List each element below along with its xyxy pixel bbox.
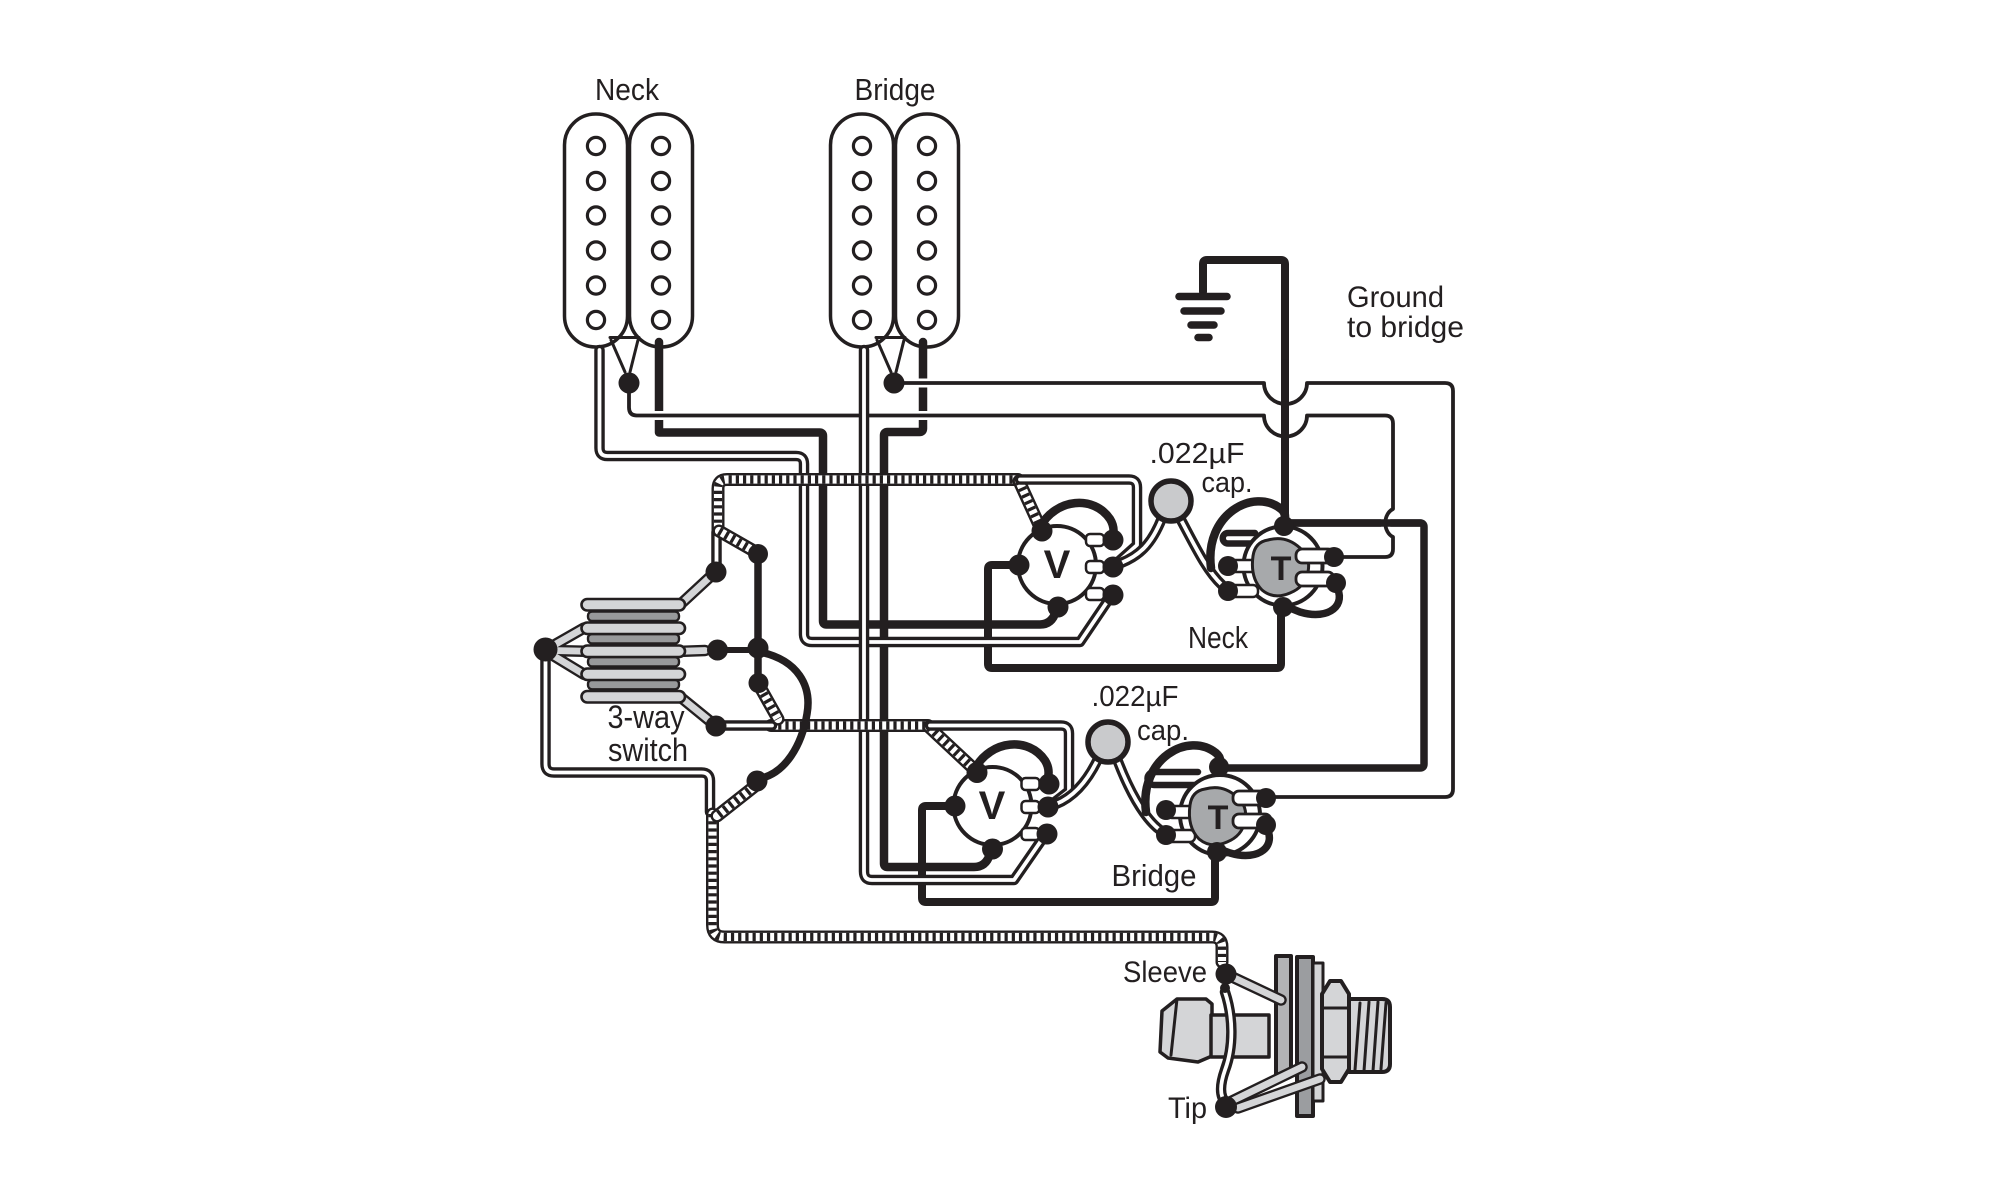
output jack assembly xyxy=(1123,956,1390,1125)
svg-text:Bridge: Bridge xyxy=(855,72,936,107)
pickup neck humbucker left coil xyxy=(565,114,628,347)
junction dot jack tip xyxy=(1215,1096,1237,1118)
wire thick switch middle lug link xyxy=(722,647,756,653)
tone pot T1 body xyxy=(1244,527,1323,606)
volume pot V1 casing arc xyxy=(1040,503,1114,536)
svg-text:Neck: Neck xyxy=(595,72,659,107)
switch lug lead middle to output dot xyxy=(684,645,705,657)
tone pot T2 body xyxy=(1180,775,1260,855)
svg-text:3-way: 3-way xyxy=(608,699,685,735)
junction dot V1 shield top-left xyxy=(1032,521,1053,542)
wire thin neck ground junction to T1 right upper lug xyxy=(629,391,1393,557)
wire neck pickup hot thick black to V1 bottom lug xyxy=(659,342,1058,625)
junction dot shield fork xyxy=(748,544,768,564)
wire white stub switch bottom lug to bus2 xyxy=(722,725,772,727)
svg-text:V: V xyxy=(979,784,1006,828)
capacitor C2 .022uF body xyxy=(1088,722,1128,762)
shield diagonal from switch lower shield dot to bus2 xyxy=(760,687,778,719)
junction dot T2 right lug lower xyxy=(1256,815,1276,835)
svg-text:.022µF: .022µF xyxy=(1150,438,1245,470)
svg-text:switch: switch xyxy=(608,732,688,768)
volume pot V2 lug 3 xyxy=(1022,828,1040,840)
jack hex nut xyxy=(1322,981,1349,1082)
junction dot V2 casing bottom xyxy=(982,839,1003,860)
shield bus 1: switch to neck volume pot xyxy=(718,480,1018,531)
shield diagonal from switch arc bottom dot to bus 3 xyxy=(717,786,755,816)
tone pot T1 right lug upper xyxy=(1296,549,1334,563)
volume pot V1 neck body xyxy=(1018,526,1096,604)
tone pot T1 casing arc xyxy=(1210,501,1285,568)
wire white from switch common left dot down and around xyxy=(546,656,711,812)
svg-text:T: T xyxy=(1271,550,1292,588)
jack washer plate xyxy=(1276,956,1291,1074)
wire bridge pickup hot thick black to V2 bottom lug xyxy=(884,342,992,867)
wire white jack sleeve to tip xyxy=(1221,992,1231,1103)
capacitor C2 .022uF leads xyxy=(1056,759,1098,804)
shield bus 3: switch down to output jack sleeve xyxy=(713,814,1223,962)
svg-text:V: V xyxy=(1044,543,1071,587)
pole pieces bridge left coil xyxy=(853,137,870,328)
junction dot T1 right lug lower xyxy=(1326,573,1346,593)
wire white continuation of bus1 to V1 middle lug xyxy=(1020,480,1137,563)
junction dot V1 lug 2 xyxy=(1103,557,1124,578)
tone pot T2 casing arc xyxy=(1145,745,1220,812)
wire thick link T1 casing to T2 casing xyxy=(1221,523,1424,768)
junction dot V2 shield top-left xyxy=(967,762,988,783)
switch contact bar 4 xyxy=(582,669,686,681)
junction dot V2 lug 2 xyxy=(1038,797,1059,818)
svg-text:Tip: Tip xyxy=(1168,1092,1207,1125)
shield bus 2 fork to V2 top-left lug xyxy=(929,727,975,770)
pole pieces neck right coil xyxy=(652,137,669,328)
wire thick ground-to-bridge from ground symbol to T1 casing xyxy=(1203,260,1285,519)
switch dark spacer bar 4 xyxy=(588,680,679,690)
tone pot T1 left lug lower xyxy=(1230,585,1258,597)
volume pot V1 lug 1 xyxy=(1086,534,1104,546)
volume pot V2 bridge body xyxy=(954,767,1032,845)
jack threaded barrel xyxy=(1349,999,1390,1072)
tone pot T1 left lug upper xyxy=(1230,560,1258,572)
wire thick T1 right lower lug to casing bottom xyxy=(1290,586,1339,614)
jack tip lug arms xyxy=(1232,1067,1302,1101)
junction dot T1 casing bottom xyxy=(1273,597,1293,617)
switch contact bar 3 xyxy=(582,646,686,658)
svg-text:.022µF: .022µF xyxy=(1092,681,1179,713)
junction dot T1 left lug upper xyxy=(1218,556,1238,576)
jack thin plate xyxy=(1313,963,1323,1101)
junction dot V1 lug 3 xyxy=(1103,585,1124,606)
wire neck pickup white to V1 lower-right lug xyxy=(600,350,1110,642)
wire thick ground link V2 casing to T2 casing xyxy=(922,806,1215,902)
junction dot switch top output xyxy=(706,562,727,583)
svg-text:Sleeve: Sleeve xyxy=(1123,956,1207,989)
junction dot switch left common xyxy=(534,638,558,662)
switch contact bar 2 xyxy=(582,623,686,635)
volume pot V1 lug 2 xyxy=(1086,561,1104,573)
tone pot T2 left lug upper xyxy=(1167,806,1195,818)
svg-text:to bridge: to bridge xyxy=(1347,311,1464,344)
junction dot V1 lug 1 xyxy=(1103,530,1124,551)
capacitor C1 .022uF leads xyxy=(1121,518,1162,563)
switch contact bar 1 xyxy=(582,599,686,611)
junction dot T2 right lug upper xyxy=(1256,788,1276,808)
jack tall plate xyxy=(1297,957,1313,1116)
junction dot T1 left lug lower xyxy=(1218,581,1238,601)
junction dot T2 casing bottom xyxy=(1207,842,1227,862)
wire bridge pickup lead V to junction xyxy=(876,338,905,373)
tone pot T2 left lug lower xyxy=(1167,830,1195,842)
wire thick switch vertical to shield junction xyxy=(754,558,762,682)
tone pot T2 bridge hairpin lug xyxy=(1148,772,1199,785)
svg-text:Bridge: Bridge xyxy=(1112,858,1197,893)
junction dot switch shield lower xyxy=(749,673,769,693)
switch dark spacer bar 1 xyxy=(588,612,679,622)
jack sleeve lug arm xyxy=(1228,975,1281,1000)
switch dark spacer bar 3 xyxy=(588,657,679,667)
switch left common leads to left dot xyxy=(549,628,584,674)
wire bridge pickup white to V2 lower-right lug xyxy=(864,350,1043,880)
svg-text:T: T xyxy=(1208,799,1229,837)
junction dot V2 lug 1 xyxy=(1039,774,1060,795)
svg-text:Neck: Neck xyxy=(1188,620,1248,655)
wire thin bridge ground junction to T2 right upper lug xyxy=(903,383,1453,797)
capacitor C1 .022uF body xyxy=(1151,481,1191,521)
wire redraw ground vertical over hop arcs xyxy=(1281,363,1289,447)
pickup bridge humbucker left coil xyxy=(831,114,894,347)
tone pot T2 wafer xyxy=(1189,788,1245,845)
wire thick T2 right lower lug to casing bottom xyxy=(1222,827,1269,855)
tone pot T1 wafer xyxy=(1252,539,1308,596)
shield bus 1 fork diagonal to switch ground dot xyxy=(719,531,754,551)
volume pot V1 lug 3 xyxy=(1086,588,1104,600)
volume pot V2 lug 1 xyxy=(1022,778,1040,790)
volume pot V2 casing arc xyxy=(975,744,1049,777)
tone pot T2 right lug upper xyxy=(1233,791,1271,805)
junction dot switch jumper top xyxy=(748,638,769,659)
tone pot T1 right lug lower xyxy=(1296,572,1334,586)
junction dot switch arc bottom xyxy=(747,771,768,792)
shield bus 1 fork to V1 top-left lug xyxy=(1019,481,1040,527)
junction dot bridge pickup leads xyxy=(884,373,905,394)
switch lug lead top to output dot xyxy=(680,576,711,605)
junction dot switch bottom output xyxy=(706,716,727,737)
pickup neck humbucker right coil xyxy=(630,114,693,347)
junction dot T1 right lug upper xyxy=(1324,547,1344,567)
wire redraw thick T1-T2 link horizontal through hop xyxy=(1290,519,1421,527)
junction dot V1 casing bottom xyxy=(1048,597,1069,618)
junction dot T1 casing top xyxy=(1274,516,1294,536)
volume pot V2 lug 2 xyxy=(1022,801,1040,813)
junction dot T2 casing top xyxy=(1209,757,1229,777)
svg-text:cap.: cap. xyxy=(1202,467,1253,499)
svg-text:Ground: Ground xyxy=(1347,281,1444,314)
junction dot T2 left lug lower xyxy=(1156,825,1176,845)
wire white stub switch top lug to shield fork xyxy=(716,532,718,566)
3-way switch body: stacked contact bars xyxy=(588,612,679,690)
switch contact bar 5 xyxy=(582,691,686,703)
wire neck pickup lead V to junction xyxy=(610,338,639,373)
junction dot V1 casing left xyxy=(1009,555,1030,576)
ground symbol for ground-to-bridge xyxy=(1179,297,1227,338)
junction dot switch middle output xyxy=(707,640,728,661)
wire thick ground link V1 casing to T1 casing xyxy=(988,565,1281,668)
junction dot V2 casing left xyxy=(945,796,966,817)
jack tip spring tab xyxy=(1160,999,1212,1062)
wire white continuation of bus2 to V2 middle lug xyxy=(930,726,1069,806)
junction dot neck pickup leads xyxy=(619,373,640,394)
switch dark spacer bar 2 xyxy=(588,634,679,644)
pole pieces neck left coil xyxy=(587,137,604,328)
junction dot V2 lug 3 xyxy=(1037,824,1058,845)
wire thick curved jumper on switch xyxy=(758,652,808,779)
shield bus 2: switch to bridge volume pot xyxy=(771,725,928,727)
tone pot T1 neck hairpin lug xyxy=(1223,533,1255,544)
junction dot jack sleeve xyxy=(1216,964,1237,985)
svg-text:cap.: cap. xyxy=(1137,715,1189,747)
switch lug lead bottom to output dot xyxy=(680,697,711,722)
pole pieces bridge right coil xyxy=(918,137,935,328)
tone pot T2 right lug lower xyxy=(1233,814,1271,828)
pickup bridge humbucker right coil xyxy=(896,114,959,347)
junction dot T2 left lug upper xyxy=(1156,800,1176,820)
jack flat spring bar xyxy=(1211,1015,1269,1057)
